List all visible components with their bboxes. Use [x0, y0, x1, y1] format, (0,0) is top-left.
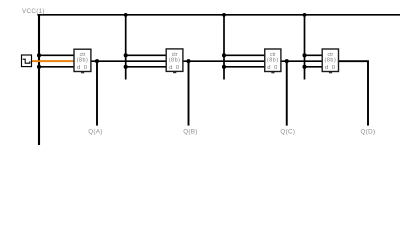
svg-text:d 0: d 0 — [77, 65, 88, 71]
svg-text:d 0: d 0 — [169, 65, 180, 71]
svg-text:Q(D): Q(D) — [361, 128, 376, 135]
svg-text:Q(C): Q(C) — [280, 128, 295, 135]
svg-text:Q(B): Q(B) — [183, 128, 198, 135]
svg-text:Q(A): Q(A) — [88, 128, 103, 135]
svg-text:(8b): (8b) — [325, 57, 337, 63]
svg-text:VCC(1): VCC(1) — [22, 8, 45, 15]
svg-text:(8b): (8b) — [169, 57, 181, 63]
svg-text:(8b): (8b) — [77, 57, 89, 63]
svg-text:(8b): (8b) — [267, 57, 279, 63]
svg-text:d 0: d 0 — [267, 65, 278, 71]
svg-text:d 0: d 0 — [325, 65, 336, 71]
